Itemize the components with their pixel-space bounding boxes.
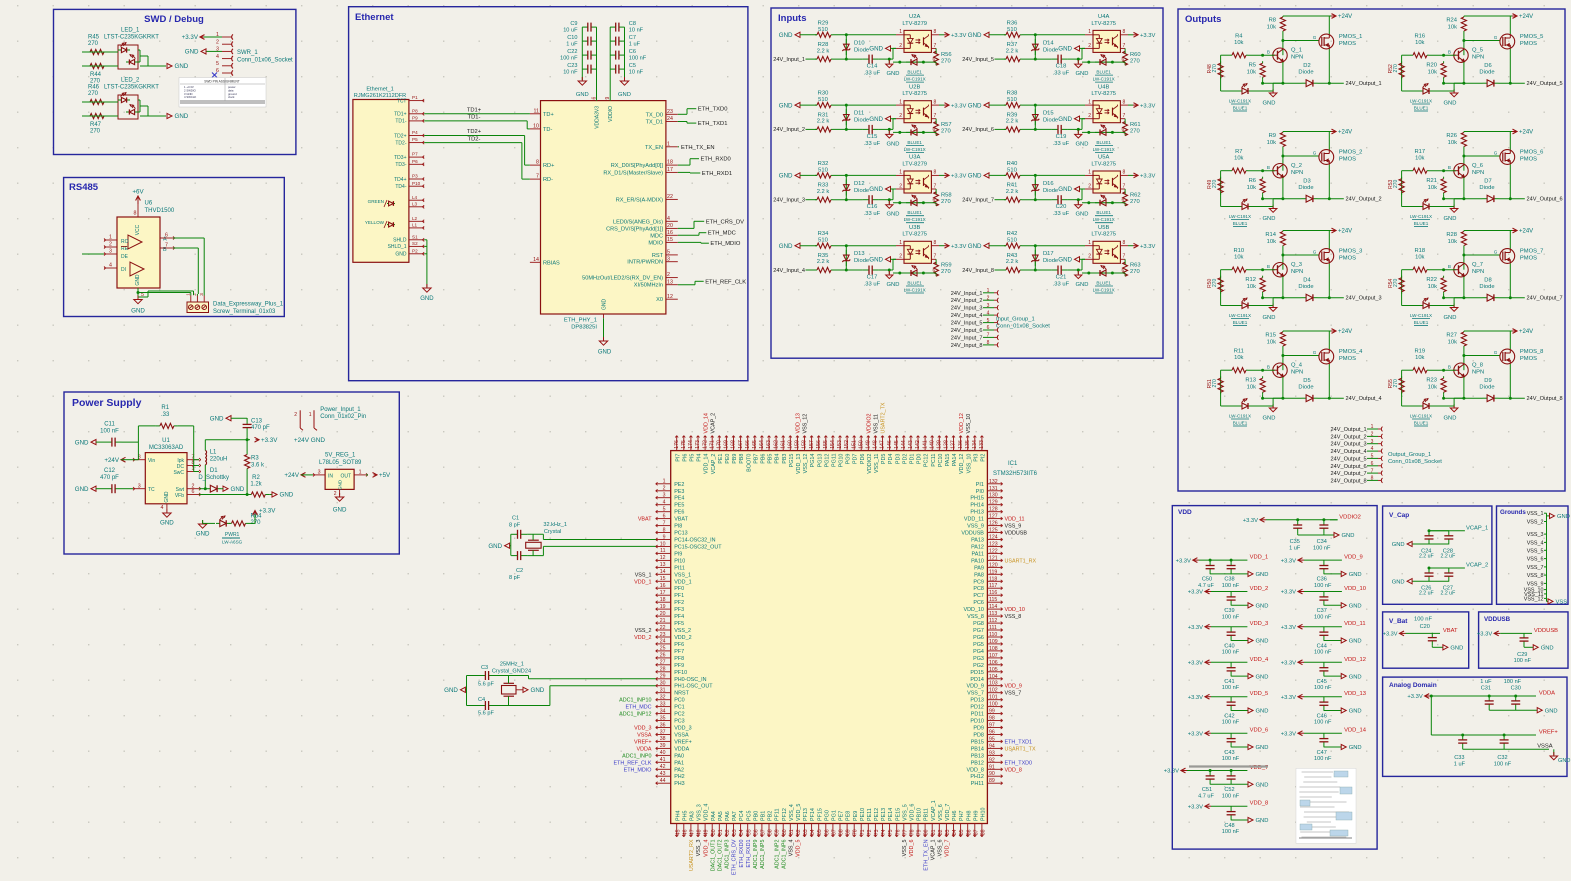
svg-text:B: B	[1448, 365, 1451, 370]
svg-text:1 uF: 1 uF	[1289, 546, 1301, 552]
svg-text:THVD1500: THVD1500	[145, 208, 175, 214]
svg-text:2: 2	[899, 183, 902, 189]
svg-text:PC15-OSC32_OUT: PC15-OSC32_OUT	[674, 545, 722, 551]
svg-text:U6: U6	[145, 201, 153, 207]
svg-text:PE5: PE5	[674, 503, 684, 509]
svg-text:Diode: Diode	[1298, 284, 1313, 290]
ground PHY left cap	[576, 77, 589, 98]
svg-text:144: 144	[901, 440, 907, 449]
svg-text:160: 160	[787, 440, 793, 449]
svg-text:24V_Output_1: 24V_Output_1	[1346, 81, 1382, 87]
capacitor C16	[863, 195, 881, 217]
wire	[1022, 244, 1085, 247]
svg-text:PG14: PG14	[810, 454, 816, 468]
svg-text:72: 72	[867, 829, 873, 835]
svg-text:USART2_RX: USART2_RX	[689, 839, 695, 871]
svg-text:100 nF: 100 nF	[1314, 583, 1332, 589]
svg-text:VFb: VFb	[175, 493, 184, 499]
svg-text:+24V: +24V	[1519, 14, 1533, 20]
svg-text:100 nF: 100 nF	[100, 429, 119, 435]
svg-text:PMOS_2: PMOS_2	[1339, 150, 1363, 156]
resistor R7	[1221, 149, 1275, 173]
pin stubs IC1 top	[674, 402, 987, 474]
svg-text:PI7: PI7	[675, 454, 681, 462]
svg-text:C48: C48	[1224, 823, 1234, 829]
net label VDD_10	[1344, 586, 1366, 592]
resistor R27	[1446, 331, 1466, 370]
svg-text:R50: R50	[1207, 278, 1213, 287]
resistor R62	[1123, 189, 1141, 206]
title Ethernet	[355, 12, 394, 23]
svg-text:10k: 10k	[1267, 239, 1276, 245]
svg-text:TD2-: TD2-	[395, 140, 406, 146]
svg-text:Input_Group_1: Input_Group_1	[996, 317, 1035, 323]
power +24V	[104, 457, 133, 464]
svg-text:79: 79	[917, 829, 923, 835]
svg-text:VSS_3: VSS_3	[1527, 532, 1544, 538]
svg-text:Diode: Diode	[1298, 70, 1313, 76]
svg-text:IN: IN	[328, 474, 333, 480]
connector Screw_Terminal_01x03	[186, 293, 284, 315]
svg-text:45: 45	[675, 829, 681, 835]
svg-text:VDD_2: VDD_2	[1250, 586, 1269, 592]
svg-text:+3.3V: +3.3V	[259, 508, 276, 515]
svg-text:VDD_6: VDD_6	[1250, 728, 1269, 734]
svg-text:GND: GND	[185, 49, 199, 56]
svg-text:PG9: PG9	[846, 454, 852, 465]
power GND cap	[886, 129, 900, 147]
svg-text:+24V: +24V	[1338, 14, 1352, 20]
svg-text:PMOS: PMOS	[1339, 41, 1356, 47]
svg-text:ETH_CRS_DV: ETH_CRS_DV	[706, 219, 744, 225]
svg-text:R35: R35	[818, 253, 829, 259]
svg-text:R49: R49	[1207, 179, 1213, 188]
svg-text:LED0/S(ANEG_Dis): LED0/S(ANEG_Dis)	[613, 219, 663, 225]
svg-text:PF4: PF4	[674, 614, 684, 620]
transistor PMOS_8 PMOS	[1500, 331, 1544, 398]
svg-text:2.2 k: 2.2 k	[817, 48, 830, 54]
svg-text:PH3: PH3	[674, 781, 685, 787]
svg-text:87: 87	[973, 829, 979, 835]
svg-text:6: 6	[165, 233, 168, 239]
resistor R53 LED branch	[1388, 171, 1404, 207]
svg-text:17: 17	[667, 167, 673, 173]
svg-text:C20: C20	[1420, 624, 1430, 630]
diode D1 Schottky	[198, 468, 229, 492]
wire ETH_RXD0	[678, 157, 731, 165]
svg-text:R45: R45	[88, 35, 100, 41]
svg-text:1: 1	[1088, 240, 1091, 246]
svg-text:R55: R55	[1388, 379, 1394, 388]
svg-text:2: 2	[216, 39, 219, 45]
optocoupler U4B	[1085, 84, 1128, 133]
power +3.3V VDD_2	[1188, 589, 1248, 596]
svg-text:PH8: PH8	[966, 811, 972, 822]
svg-text:7: 7	[536, 174, 539, 180]
svg-text:LTV-8275: LTV-8275	[902, 232, 927, 238]
svg-text:VDD_4: VDD_4	[1250, 657, 1269, 663]
svg-text:TD2+: TD2+	[394, 133, 406, 139]
capacitor C45	[1314, 662, 1332, 691]
power GND	[1248, 782, 1268, 789]
power GND input 8	[968, 243, 1006, 250]
svg-text:PMOS_3: PMOS_3	[1339, 249, 1363, 255]
svg-text:C32: C32	[1497, 755, 1507, 761]
transistor Q_5 NPN	[1448, 48, 1484, 63]
resistor R51 LED branch	[1207, 370, 1223, 406]
ground output channel	[1263, 296, 1285, 321]
wire	[1324, 710, 1341, 712]
power GND	[75, 486, 106, 493]
svg-text:ADC1_INP12: ADC1_INP12	[619, 712, 651, 718]
power GND cap	[886, 59, 900, 77]
svg-text:GND: GND	[1444, 315, 1457, 321]
diode D9	[1479, 378, 1498, 402]
svg-text:270: 270	[941, 199, 951, 205]
svg-text:Output_Group_1: Output_Group_1	[1388, 452, 1431, 458]
svg-text:LW-C191X: LW-C191X	[904, 147, 926, 152]
svg-text:89: 89	[989, 778, 995, 784]
net label VDD_6	[1250, 728, 1269, 734]
svg-text:U2B: U2B	[909, 84, 920, 90]
wire	[1231, 710, 1248, 712]
svg-text:7: 7	[934, 43, 937, 49]
svg-text:PD15: PD15	[970, 670, 984, 676]
svg-text:+3.3V: +3.3V	[1140, 244, 1155, 250]
svg-text:10k: 10k	[1234, 156, 1243, 162]
resistor R8	[1267, 16, 1286, 55]
power GND	[131, 296, 145, 315]
svg-text:83: 83	[945, 829, 951, 835]
resistor R60	[1123, 48, 1141, 65]
svg-text:107: 107	[989, 653, 998, 659]
svg-text:8: 8	[1123, 99, 1126, 105]
svg-text:52: 52	[725, 829, 731, 835]
svg-text:10k: 10k	[1428, 385, 1437, 391]
svg-text:PA6: PA6	[725, 811, 731, 821]
capacitor C41	[1222, 662, 1240, 691]
svg-text:C37: C37	[1317, 608, 1327, 614]
svg-text:R20: R20	[1426, 63, 1437, 69]
svg-text:VDD_12: VDD_12	[959, 413, 965, 433]
svg-text:D8: D8	[1484, 277, 1491, 283]
svg-text:+3.3V: +3.3V	[1281, 590, 1296, 596]
svg-text:R54: R54	[1388, 278, 1394, 287]
svg-text:GND: GND	[887, 71, 900, 77]
svg-text:PH15: PH15	[970, 496, 984, 502]
svg-text:D_Schottky: D_Schottky	[198, 475, 229, 481]
resistor R47	[86, 113, 108, 134]
svg-text:Q_5: Q_5	[1472, 48, 1483, 54]
svg-text:7: 7	[1123, 254, 1126, 260]
svg-text:G: G	[1313, 250, 1317, 255]
svg-text:R1: R1	[161, 405, 169, 411]
svg-text:C21: C21	[1056, 275, 1067, 281]
svg-text:8 pF: 8 pF	[509, 575, 521, 581]
section VDDUSB	[1479, 612, 1568, 668]
svg-text:24V_Input_1: 24V_Input_1	[773, 57, 805, 63]
svg-text:ADC1_INP0: ADC1_INP0	[622, 753, 651, 759]
svg-text:100 nF: 100 nF	[1222, 614, 1240, 620]
svg-text:LED_2: LED_2	[121, 78, 140, 84]
svg-text:C41: C41	[1224, 679, 1234, 685]
svg-text:TD2+: TD2+	[467, 129, 482, 135]
svg-text:.33 uF: .33 uF	[864, 141, 881, 147]
svg-text:.33 uF: .33 uF	[1053, 211, 1070, 217]
svg-text:DI: DI	[121, 267, 126, 273]
power GND input 5	[968, 32, 1006, 39]
svg-text:C15: C15	[867, 134, 878, 140]
section Power Supply	[64, 392, 399, 554]
svg-text:GND: GND	[1263, 216, 1276, 222]
wire	[1022, 269, 1052, 272]
wire	[1022, 198, 1052, 201]
svg-text:142: 142	[915, 440, 921, 449]
svg-text:PB6: PB6	[760, 454, 766, 464]
svg-text:V_Cap: V_Cap	[1389, 512, 1409, 519]
capacitor C35	[1289, 520, 1302, 552]
svg-text:24V_Input_4: 24V_Input_4	[773, 268, 805, 274]
resistor R54 LED branch	[1388, 270, 1404, 306]
svg-text:R10: R10	[1233, 248, 1244, 254]
power GND	[1341, 603, 1361, 610]
power +3.3V	[182, 34, 222, 41]
svg-text:121: 121	[989, 555, 998, 561]
svg-text:GND: GND	[75, 439, 89, 446]
power +3.3V	[939, 32, 966, 39]
svg-text:+3.3V: +3.3V	[1188, 661, 1203, 667]
svg-text:152: 152	[844, 440, 850, 449]
svg-text:PG1: PG1	[831, 810, 837, 821]
svg-text:PMOS: PMOS	[1339, 256, 1356, 262]
svg-text:24V_Output_5: 24V_Output_5	[1527, 81, 1563, 87]
svg-text:MDIO: MDIO	[648, 240, 663, 246]
svg-text:GND: GND	[968, 102, 982, 109]
svg-text:PH9: PH9	[973, 811, 979, 822]
svg-text:172: 172	[702, 440, 708, 449]
svg-text:155: 155	[823, 440, 829, 449]
title VDDUSB	[1484, 616, 1511, 623]
svg-text:SwC: SwC	[173, 470, 184, 476]
svg-text:Q_4: Q_4	[1291, 363, 1303, 369]
svg-text:GND: GND	[602, 299, 608, 311]
svg-text:GND: GND	[1058, 46, 1072, 53]
embedded image pinout thumbnail	[1296, 768, 1356, 843]
svg-text:VDD_8: VDD_8	[967, 767, 984, 773]
svg-text:GND: GND	[1450, 646, 1463, 652]
LED LED_2	[104, 78, 159, 120]
capacitor C24	[1419, 530, 1434, 559]
resistor R41	[1004, 183, 1022, 203]
title VDD	[1178, 509, 1192, 516]
svg-text:GND: GND	[1076, 141, 1089, 147]
ground output channel	[1263, 397, 1285, 422]
svg-text:C46: C46	[1317, 713, 1327, 719]
svg-text:470 pF: 470 pF	[251, 425, 270, 431]
svg-text:Analog Domain: Analog Domain	[1389, 682, 1437, 689]
svg-text:71: 71	[860, 829, 866, 835]
wire	[833, 269, 863, 272]
svg-text:1: 1	[663, 479, 666, 485]
resistor R10	[1221, 248, 1275, 272]
svg-text:161: 161	[780, 440, 786, 449]
svg-text:86: 86	[966, 829, 972, 835]
svg-text:8: 8	[1123, 170, 1126, 176]
svg-text:VSS_10: VSS_10	[966, 454, 972, 474]
resistor R28	[1446, 231, 1466, 270]
capacitor C12	[100, 468, 133, 493]
power +3.3V	[1128, 103, 1155, 110]
svg-text:.33 uF: .33 uF	[864, 71, 881, 77]
section Inputs	[771, 8, 1163, 358]
wire GND	[137, 288, 191, 299]
svg-text:PA7: PA7	[732, 811, 738, 821]
svg-text:100 nF: 100 nF	[1494, 761, 1512, 767]
svg-text:C16: C16	[867, 204, 878, 210]
svg-text:Diode: Diode	[1298, 185, 1313, 191]
svg-text:+3.3V: +3.3V	[1281, 625, 1296, 631]
svg-text:100 nF: 100 nF	[629, 56, 647, 62]
wire	[1524, 646, 1533, 647]
svg-text:100 nF: 100 nF	[1222, 650, 1240, 656]
svg-text:G: G	[1494, 250, 1498, 255]
svg-text:100 nF: 100 nF	[1314, 720, 1332, 726]
svg-text:150: 150	[858, 440, 864, 449]
svg-text:VCAP_1: VCAP_1	[931, 800, 937, 821]
power GND analog top	[1537, 708, 1557, 715]
svg-text:100 nF: 100 nF	[1314, 685, 1332, 691]
capacitor C43	[1222, 733, 1240, 762]
zener diode D15	[1031, 105, 1058, 129]
svg-text:GND: GND	[1256, 709, 1269, 715]
wire output	[1261, 277, 1344, 300]
svg-text:ETH_MDIO: ETH_MDIO	[624, 767, 652, 773]
svg-text:VDD_6: VDD_6	[909, 840, 915, 857]
svg-text:VSS_6: VSS_6	[1527, 557, 1544, 563]
svg-text:GND: GND	[164, 491, 170, 503]
svg-text:VSSA: VSSA	[674, 733, 689, 739]
capacitor C28	[1441, 530, 1456, 559]
svg-text:10k: 10k	[1428, 284, 1437, 290]
optocoupler U5B	[1085, 225, 1128, 274]
svg-text:VSSA: VSSA	[1537, 744, 1553, 750]
svg-text:139: 139	[937, 440, 943, 449]
svg-text:NPN: NPN	[1472, 170, 1484, 176]
svg-text:R31: R31	[818, 112, 829, 118]
net label VDD_8	[1250, 801, 1269, 807]
svg-text:C40: C40	[1224, 643, 1234, 649]
svg-text:R3: R3	[251, 456, 259, 462]
svg-text:PG10: PG10	[839, 454, 845, 468]
svg-text:85: 85	[959, 829, 965, 835]
pin table image	[179, 78, 266, 108]
capacitor C37	[1314, 592, 1332, 621]
resistor R11	[1221, 348, 1275, 372]
power +24V	[1283, 228, 1352, 235]
svg-text:15: 15	[667, 237, 673, 243]
svg-text:LW-C191X: LW-C191X	[1093, 217, 1115, 222]
indicator LED	[1082, 195, 1125, 223]
title Grounds	[1500, 509, 1526, 516]
svg-text:4: 4	[987, 310, 990, 316]
svg-text:124: 124	[989, 535, 998, 541]
wire	[833, 128, 863, 131]
svg-text:C35: C35	[1290, 539, 1300, 545]
svg-text:SHLD: SHLD	[393, 238, 407, 244]
svg-text:+3.3V: +3.3V	[1281, 731, 1296, 737]
svg-text:VDD_5: VDD_5	[796, 804, 802, 821]
svg-text:31: 31	[660, 688, 666, 694]
svg-text:+24V: +24V	[284, 472, 299, 479]
svg-text:24V_Input_7: 24V_Input_7	[951, 335, 983, 341]
title Outputs	[1185, 14, 1221, 25]
power +24V	[284, 472, 313, 479]
svg-text:Conn_01x02_Pin: Conn_01x02_Pin	[320, 414, 366, 420]
svg-text:116: 116	[989, 590, 997, 596]
svg-text:115: 115	[989, 597, 997, 603]
power GND input 7	[968, 173, 1006, 180]
svg-text:120: 120	[989, 562, 998, 568]
svg-text:2: 2	[663, 486, 666, 492]
svg-text:GND: GND	[1545, 708, 1558, 714]
svg-text:Ethernet: Ethernet	[355, 12, 394, 23]
svg-text:NPN: NPN	[1472, 370, 1484, 376]
svg-text:24V_Input_6: 24V_Input_6	[962, 127, 994, 133]
svg-text:R43: R43	[1007, 253, 1018, 259]
wire	[1022, 128, 1052, 131]
svg-text:1: 1	[899, 29, 902, 35]
svg-text:PH6: PH6	[952, 811, 958, 822]
svg-text:GND: GND	[968, 243, 982, 250]
svg-text:PD1: PD1	[910, 454, 916, 465]
wire	[1231, 819, 1248, 821]
svg-text:RS485: RS485	[69, 182, 99, 193]
wire	[879, 189, 896, 201]
svg-text:C52: C52	[1224, 787, 1234, 793]
IC IC1 STM32H573IIT6	[671, 451, 1038, 824]
svg-text:1: 1	[309, 412, 312, 418]
power GND	[1248, 708, 1268, 715]
svg-text:4.7 uF: 4.7 uF	[1198, 793, 1214, 799]
svg-text:53: 53	[732, 829, 738, 835]
svg-text:+5V: +5V	[379, 472, 391, 479]
svg-text:3: 3	[667, 256, 670, 262]
wire output	[1442, 62, 1525, 85]
svg-text:R52: R52	[1388, 64, 1394, 73]
svg-text:PMOS: PMOS	[1339, 157, 1356, 163]
svg-text:R23: R23	[1426, 378, 1437, 384]
svg-text:LW-C191X: LW-C191X	[1093, 77, 1115, 82]
svg-text:.33 uF: .33 uF	[864, 211, 881, 217]
net label VDD_4	[1250, 657, 1269, 663]
resistor R61	[1123, 119, 1141, 136]
svg-text:Inputs: Inputs	[778, 13, 807, 24]
svg-text:143: 143	[908, 440, 914, 449]
svg-text:7: 7	[934, 113, 937, 119]
svg-text:10 nF: 10 nF	[629, 70, 644, 76]
wire	[1022, 104, 1085, 107]
svg-text:163: 163	[766, 440, 772, 449]
svg-text:.33 uF: .33 uF	[864, 282, 881, 288]
svg-text:PD11: PD11	[971, 712, 984, 718]
crystal 32kHz_1	[509, 516, 656, 582]
svg-text:VDD_11: VDD_11	[964, 517, 984, 523]
power GND	[167, 113, 189, 120]
svg-text:154: 154	[830, 440, 836, 449]
svg-text:Screw_Terminal_01x03: Screw_Terminal_01x03	[213, 309, 276, 315]
svg-text:VDD_10: VDD_10	[964, 607, 984, 613]
svg-text:10k: 10k	[1415, 156, 1424, 162]
